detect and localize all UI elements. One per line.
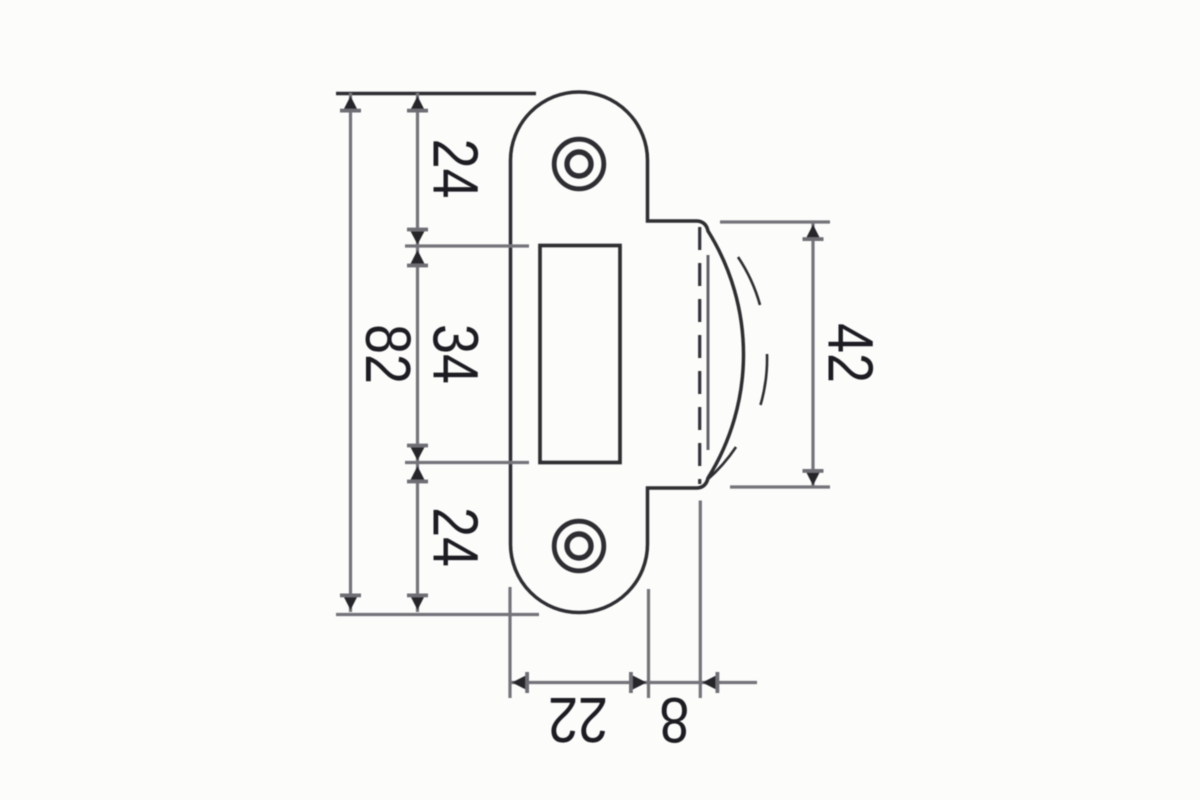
arrow 82 top [343, 96, 357, 110]
screw hole top outer [554, 139, 604, 189]
svg-text:8: 8 [659, 684, 689, 757]
svg-text:24: 24 [419, 507, 492, 567]
latch cutout rectangle [540, 246, 620, 463]
dimension line 22/8 [510, 681, 757, 684]
arrow 42 top [806, 225, 820, 239]
arrow pair at cutout top: upper [410, 231, 424, 245]
extension line bottom (82/24) [336, 613, 539, 616]
extension line tab top (42) [720, 220, 830, 223]
extension line tab bottom (42) [730, 485, 830, 488]
extension line lip right (8) [699, 501, 702, 699]
arrow 22 right [633, 675, 647, 689]
lip accent arc upper [738, 257, 760, 305]
dimension texts [352, 139, 887, 757]
dimension line 24/34/24 [416, 93, 419, 612]
extension line top (82/24, dark) [336, 92, 536, 95]
screw hole top inner [567, 152, 591, 176]
extension line cutout bottom [405, 461, 529, 464]
bend line (dashed) [698, 227, 701, 484]
arrow 24 top [410, 96, 424, 110]
plate outline with lip tab [511, 92, 744, 613]
lip accent arc middle [761, 354, 768, 405]
extension line cutout top [405, 244, 529, 247]
svg-text:34: 34 [419, 324, 492, 384]
dimension line 42 [811, 222, 814, 488]
arrowheads [340, 96, 824, 693]
arrow 82 bottom [343, 596, 357, 610]
arrow pair at cutout top: lower [410, 250, 424, 264]
arrow 24 bottom [410, 596, 424, 610]
svg-text:42: 42 [814, 323, 887, 383]
screw hole bottom outer [554, 521, 604, 571]
svg-text:22: 22 [548, 684, 608, 757]
arrow 42 bottom [806, 472, 820, 486]
arrow pair at cutout bottom: upper [410, 447, 424, 461]
arrow pair at cutout bottom: lower [410, 466, 424, 480]
lip accent arc lower [707, 447, 736, 480]
screw hole bottom inner [567, 534, 591, 558]
arrow 8 right (points left) [702, 675, 716, 689]
extension line plate left (22) [508, 587, 511, 698]
lip tangent edge [707, 255, 710, 450]
extension lines [336, 93, 830, 698]
arrow 22 left [512, 675, 526, 689]
extension line plate right (22/8) [647, 589, 650, 698]
dimension line 82 [349, 93, 352, 612]
svg-text:24: 24 [419, 139, 492, 199]
svg-text:82: 82 [352, 324, 425, 384]
